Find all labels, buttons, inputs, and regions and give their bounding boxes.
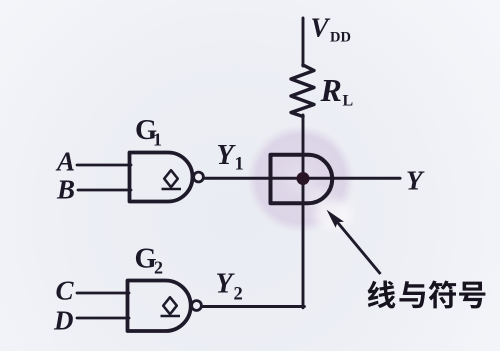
wire input D [77, 317, 129, 320]
wire Y2 horizontal [202, 305, 304, 308]
svg-text:R: R [320, 72, 342, 108]
svg-text:Y: Y [217, 140, 237, 171]
arrow to wired-AND symbol [327, 210, 381, 274]
svg-text:D: D [53, 306, 74, 336]
G1 output bubble [194, 172, 204, 182]
NAND gate G1 body [130, 153, 193, 202]
svg-text:Y: Y [406, 166, 425, 196]
wire resistor to wired-AND and down to Y2 [302, 115, 305, 308]
svg-text:A: A [55, 147, 75, 177]
svg-text:B: B [56, 175, 75, 205]
wired-AND highlight halo [247, 125, 355, 233]
wired-AND symbol body [271, 155, 333, 203]
junction dot [297, 172, 310, 185]
VDD supply wire [302, 18, 305, 66]
svg-text:L: L [343, 93, 354, 110]
wire input B [78, 189, 131, 192]
light patch around arrowhead [306, 188, 353, 230]
label 线与符号 (wired-AND symbol caption), drawn as paths [368, 281, 396, 309]
svg-text:2: 2 [154, 258, 163, 278]
svg-text:1: 1 [153, 130, 162, 150]
G2 output bubble [192, 301, 202, 311]
NAND gate G2 body [128, 281, 191, 332]
wire input C [77, 292, 129, 295]
svg-text:1: 1 [235, 155, 244, 175]
svg-text:2: 2 [234, 285, 243, 305]
wire input A [77, 164, 131, 167]
svg-text:C: C [56, 276, 75, 306]
resistor RL [291, 65, 314, 117]
svg-text:Y: Y [216, 269, 236, 300]
wire main output Y [203, 177, 400, 180]
svg-text:V: V [311, 13, 331, 43]
G2 open-drain diamond symbol [161, 297, 181, 316]
svg-text:DD: DD [330, 30, 351, 46]
G1 open-drain diamond symbol [162, 170, 182, 189]
